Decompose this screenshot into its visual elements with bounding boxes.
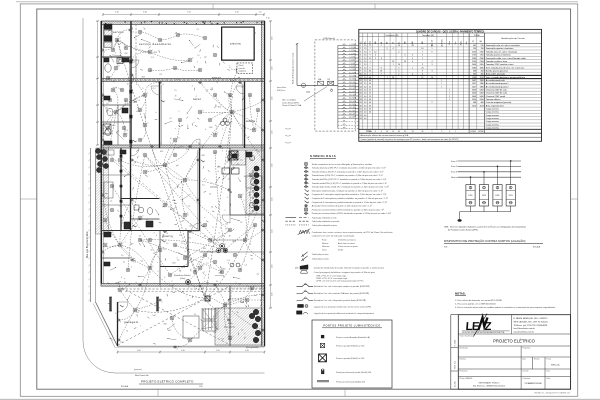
- svg-text:7: 7: [370, 48, 371, 50]
- svg-text:24: 24: [421, 67, 423, 69]
- svg-text:11: 11: [167, 233, 169, 235]
- svg-text:c: c: [160, 262, 161, 264]
- street corner curb arc: [83, 341, 115, 373]
- svg-text:10: 10: [246, 190, 248, 192]
- svg-text:17- 1,5(W): 17- 1,5(W): [349, 95, 357, 97]
- svg-text:18- 2,5(W): 18- 2,5(W): [349, 98, 357, 100]
- svg-text:Ligação de sua proteção reside: Ligação de sua proteção residencial a em…: [314, 305, 372, 308]
- svg-text:lenz@lenzeletrica.com.br: lenz@lenzeletrica.com.br: [514, 327, 536, 330]
- svg-text:10: 10: [398, 64, 400, 66]
- svg-text:Ponto para chuveiro elétrico 2: Ponto para chuveiro elétrico 220V instal…: [312, 208, 384, 211]
- lower middle lights: [138, 238, 142, 242]
- svg-text:Carga reserva: Carga reserva: [486, 108, 500, 111]
- svg-text:2,5: 2,5: [364, 64, 367, 66]
- svg-text:2,5: 2,5: [364, 51, 367, 53]
- quadro de cargas table frame: [359, 29, 542, 141]
- svg-text:5: 5: [398, 67, 399, 69]
- svg-text:1: 1: [449, 93, 450, 95]
- svg-text:Instalação (W): Instalação (W): [386, 34, 399, 37]
- svg-text:Ø20: Ø20: [209, 127, 212, 129]
- legend row chu: [305, 208, 308, 211]
- svg-text:3: 3: [211, 182, 212, 184]
- svg-text:a: a: [202, 110, 203, 112]
- svg-text:9: 9: [432, 51, 433, 53]
- svg-text:b: b: [252, 156, 253, 158]
- svg-text:Acionador forma: botoeira de p: Acionador forma: botoeira de pulso a 1,1…: [312, 205, 372, 208]
- svg-text:a: a: [232, 336, 233, 338]
- extra fixtures kitchen: [249, 155, 254, 160]
- svg-text:FL. 01/01: FL. 01/01: [455, 340, 457, 347]
- svg-text:25: 25: [369, 96, 371, 98]
- svg-text:(5kA): (5kA): [306, 91, 310, 94]
- svg-text:Tomada alta/cota (2,0P) 2P+T,: Tomada alta/cota (2,0P) 2P+T, instalada …: [312, 167, 386, 170]
- svg-text:Tomada sala, int. sala e circu: Tomada sala, int. sala e circulação: [486, 50, 518, 53]
- svg-text:CPTE = 50 x 50 x 12cm com ta: CPTE = 50 x 50 x 12cm com tampa parafusa…: [316, 280, 364, 283]
- svg-text:2,5: 2,5: [162, 84, 164, 86]
- svg-text:2,5: 2,5: [134, 262, 136, 264]
- svg-text:b: b: [156, 112, 157, 114]
- svg-text:Carga reserva: Carga reserva: [486, 123, 500, 126]
- svg-text:4: 4: [227, 197, 228, 199]
- svg-text:16: 16: [230, 192, 232, 194]
- svg-text:2,5: 2,5: [364, 58, 367, 60]
- svg-text:1,5: 1,5: [166, 243, 168, 245]
- svg-text:5: 5: [119, 285, 120, 287]
- svg-text:2: 2: [178, 111, 179, 113]
- wire DPS3 to earth bus: [497, 206, 499, 212]
- svg-text:Ponto para chuveiro elétrico (: Ponto para chuveiro elétrico (220V) loca…: [312, 212, 391, 215]
- dimension chain right: [270, 21, 272, 308]
- wire tap DPS3: [497, 166, 499, 184]
- QGD dashed enclosure: [315, 40, 355, 131]
- svg-text:7: 7: [370, 64, 371, 66]
- svg-text:Ø20: Ø20: [164, 324, 167, 326]
- svg-text:(Pool): (Pool): [239, 65, 244, 67]
- svg-text:Vermelho ou branco: Vermelho ou branco: [338, 240, 357, 242]
- suite closet dark boxes: [124, 222, 130, 229]
- ceiling light points: [115, 38, 119, 42]
- svg-text:8: 8: [381, 131, 382, 133]
- svg-text:Iluminação sala, int. sala e c: Iluminação sala, int. sala e circulação: [486, 44, 521, 47]
- svg-text:14: 14: [392, 61, 394, 63]
- svg-text:9: 9: [412, 61, 413, 63]
- svg-text:3: 3: [432, 70, 433, 72]
- washing machine: [117, 58, 123, 64]
- svg-text:Rede de Energia da concess. lo: Rede de Energia da concess. local: [293, 53, 295, 84]
- svg-text:2: 2: [140, 325, 141, 327]
- svg-text:9: 9: [387, 48, 388, 50]
- svg-text:2,5: 2,5: [177, 259, 179, 261]
- svg-text:4,1: 4,1: [239, 283, 241, 285]
- svg-text:16: 16: [126, 330, 128, 332]
- svg-text:Bomba piscina (piscina): Bomba piscina (piscina): [486, 70, 508, 72]
- svg-text:3,45: 3,45: [115, 12, 119, 14]
- svg-text:6: 6: [360, 61, 361, 63]
- svg-text:10: 10: [159, 143, 161, 145]
- svg-text:2,5: 2,5: [364, 70, 367, 72]
- svg-text:10: 10: [127, 84, 129, 86]
- svg-text:20- 2,5(W): 20- 2,5(W): [349, 104, 357, 106]
- svg-text:4,0: 4,0: [364, 90, 367, 92]
- svg-text:2: 2: [398, 51, 399, 53]
- svg-text:44: 44: [369, 99, 371, 101]
- garage left wall: [117, 302, 119, 346]
- svg-text:1: 1: [441, 80, 442, 82]
- svg-text:3: 3: [243, 125, 244, 127]
- svg-text:4,0: 4,0: [364, 105, 367, 107]
- svg-text:4,0: 4,0: [364, 102, 367, 104]
- wall garage top: [101, 284, 265, 287]
- svg-text:Fase:: Fase:: [322, 240, 327, 242]
- svg-text:ESCALA: ESCALA: [121, 385, 129, 388]
- pontos row 2: [320, 343, 324, 347]
- svg-text:Ponto no parede (40x40) Luz 20: Ponto no parede (40x40) Luz 200: [336, 357, 364, 360]
- casa de maquinas box: [237, 63, 253, 74]
- svg-text:5: 5: [412, 58, 413, 60]
- svg-text:(Obra): (Obra): [180, 278, 186, 280]
- svg-text:22- 2,5(W): 22- 2,5(W): [349, 110, 357, 112]
- svg-text:a: a: [204, 277, 205, 279]
- hall inner walls: [187, 231, 189, 267]
- svg-text:20: 20: [360, 105, 362, 107]
- svg-text:garagem: garagem: [124, 320, 139, 324]
- logo cell divider: [510, 315, 512, 334]
- svg-text:3: 3: [441, 131, 442, 133]
- svg-text:368: 368: [473, 70, 476, 72]
- legend tubulacao slash row: [300, 251, 308, 258]
- svg-text:b: b: [244, 333, 245, 335]
- svg-text:11: 11: [231, 162, 233, 164]
- svg-text:Identificação do Circuito: Identificação do Circuito: [501, 37, 525, 40]
- svg-text:15: 15: [399, 42, 401, 44]
- svg-text:24: 24: [412, 45, 414, 47]
- svg-text:2,85: 2,85: [272, 131, 274, 135]
- svg-text:9: 9: [360, 70, 361, 72]
- svg-text:5500: 5500: [480, 99, 484, 101]
- svg-text:VERSÃO 01 - ESCALA DE PLOTAG: VERSÃO 01 - ESCALA DE PLOTAGEM 1/50: [534, 392, 570, 395]
- building left wall: [100, 21, 102, 284]
- garden plants dark blobs: [95, 148, 100, 153]
- svg-text:5: 5: [230, 322, 231, 324]
- legend row tom_b: [305, 174, 307, 176]
- svg-text:Chuv.: Chuv.: [449, 41, 451, 45]
- wire tap DPS2: [483, 172, 485, 185]
- svg-text:10: 10: [226, 162, 228, 164]
- svg-text:2: 2: [228, 188, 229, 190]
- svg-text:14: 14: [404, 61, 406, 63]
- svg-text:2,5: 2,5: [364, 83, 367, 85]
- svg-text:1: 1: [455, 131, 456, 133]
- svg-text:40: 40: [369, 109, 371, 111]
- svg-text:10: 10: [244, 176, 246, 178]
- svg-text:5400: 5400: [472, 93, 476, 95]
- spare branches: [338, 121, 359, 123]
- svg-text:2100: 2100: [480, 61, 484, 63]
- svg-text:1580: 1580: [472, 67, 476, 69]
- svg-text:19: 19: [360, 102, 362, 104]
- svg-text:Carga reserva: Carga reserva: [486, 117, 500, 120]
- svg-text:34: 34: [412, 131, 414, 133]
- shower box X: [103, 124, 111, 134]
- svg-text:4: 4: [360, 55, 361, 57]
- legend tubulacao row: [286, 220, 297, 222]
- svg-text:Ponto para iluminação (bulbo): Ponto para iluminação (bulbo) 100: [336, 380, 365, 383]
- svg-text:9: 9: [370, 55, 371, 57]
- gate posts garage: [110, 297, 112, 311]
- svg-text:Tomada quartos e banheiro: Tomada quartos e banheiro: [486, 54, 512, 57]
- svg-text:5500: 5500: [472, 99, 476, 101]
- svg-text:2400: 2400: [472, 64, 476, 66]
- svg-text:Rua Dona Ida: Rua Dona Ida: [135, 375, 149, 377]
- legend eletroduto condutores block: [299, 230, 310, 234]
- svg-text:b: b: [192, 58, 193, 60]
- svg-text:2,85: 2,85: [272, 230, 274, 234]
- svg-text:Chuveiro 220V de suíte: Chuveiro 220V de suíte: [486, 92, 508, 95]
- legend row tom_m: [305, 170, 307, 172]
- svg-text:7- 1,5(W): 7- 1,5(W): [349, 63, 356, 65]
- svg-text:7: 7: [234, 83, 235, 85]
- svg-text:13: 13: [360, 83, 362, 85]
- svg-text:3: 3: [139, 239, 140, 241]
- svg-text:3: 3: [164, 277, 165, 279]
- svg-text:9: 9: [370, 67, 371, 69]
- svg-text:2: 2: [375, 58, 376, 60]
- DR device: [328, 81, 334, 85]
- svg-text:#1,5: #1,5: [151, 57, 154, 59]
- svg-text:27: 27: [225, 229, 227, 231]
- svg-text:b: b: [224, 236, 225, 238]
- legend tubulacao row: [286, 217, 297, 219]
- svg-text:3: 3: [244, 261, 245, 263]
- top band speckles: [141, 22, 142, 23]
- dimension chain left: [97, 21, 99, 145]
- svg-text:462: 462: [473, 45, 476, 47]
- svg-text:14: 14: [360, 86, 362, 88]
- svg-text:21- 1,5(W): 21- 1,5(W): [349, 107, 357, 109]
- qgd box in plan: [205, 296, 210, 301]
- svg-text:1,5: 1,5: [209, 194, 211, 196]
- spare rows: [359, 122, 542, 124]
- legend row lamp: [304, 162, 308, 166]
- building top wall band: [101, 21, 265, 25]
- svg-text:a: a: [157, 262, 158, 264]
- svg-text:S/M: S/M: [444, 246, 448, 248]
- svg-text:3: 3: [120, 322, 121, 324]
- svg-text:190: 190: [481, 48, 484, 50]
- svg-text:2: 2: [131, 266, 132, 268]
- svg-text:9: 9: [422, 70, 423, 72]
- svg-text:a: a: [202, 282, 203, 284]
- svg-text:c: c: [186, 296, 187, 298]
- svg-text:1013: 1013: [472, 105, 476, 107]
- svg-text:40: 40: [369, 112, 371, 114]
- svg-text:a: a: [152, 315, 153, 317]
- svg-text:4,0: 4,0: [364, 118, 367, 120]
- svg-text:b: b: [218, 171, 219, 173]
- legend dps row: [298, 304, 304, 307]
- svg-text:1: 1: [393, 64, 394, 66]
- svg-text:Ø20: Ø20: [112, 125, 115, 127]
- svg-text:hall: hall: [240, 300, 244, 304]
- svg-text:Conjunto de 1 interruptor simp: Conjunto de 1 interruptor simples/parale…: [312, 193, 387, 196]
- svg-text:3: 3: [160, 265, 161, 267]
- legend row tom_d: [305, 186, 307, 188]
- mid lower wall: [101, 257, 131, 259]
- svg-text:b: b: [255, 32, 256, 34]
- svg-text:Contra Surtos (DPS): Contra Surtos (DPS): [282, 101, 299, 104]
- svg-text:1,5: 1,5: [117, 289, 119, 291]
- svg-text:RESPONSÁVEL TÉCNICO: RESPONSÁVEL TÉCNICO: [479, 381, 500, 384]
- svg-text:máquinas: máquinas: [239, 71, 247, 73]
- svg-text:c: c: [228, 131, 229, 133]
- svg-text:b: b: [228, 263, 229, 265]
- svg-text:b: b: [239, 155, 240, 157]
- svg-text:3: 3: [265, 202, 266, 204]
- svg-text:25: 25: [393, 42, 395, 44]
- svg-text:Circ: Circ: [360, 41, 362, 44]
- dashed area divider: [135, 25, 137, 79]
- svg-text:5400: 5400: [472, 96, 476, 98]
- svg-text:3: 3: [360, 51, 361, 53]
- svg-text:2580: 2580: [480, 58, 484, 60]
- svg-text:DISPOSITIVO DE PROTEÇÃO CON: DISPOSITIVO DE PROTEÇÃO CONTRA SURTOS (L…: [444, 238, 526, 243]
- door jambs x131: [130, 60, 132, 63]
- total row: [359, 128, 542, 130]
- svg-text:25: 25: [369, 86, 371, 88]
- kitchen X box: [229, 151, 238, 160]
- svg-text:1: 1: [200, 233, 201, 235]
- row profissional: [520, 369, 522, 377]
- svg-text:b: b: [185, 259, 186, 261]
- svg-text:16: 16: [175, 95, 177, 97]
- svg-text:19- 1,5(W): 19- 1,5(W): [349, 101, 357, 103]
- svg-text:2,5: 2,5: [133, 62, 135, 64]
- svg-text:5: 5: [104, 197, 105, 199]
- svg-text:#1,5: #1,5: [152, 88, 155, 90]
- legend eletroduto arc row: [297, 284, 314, 286]
- svg-text:6,00: 6,00: [137, 350, 141, 352]
- pontos row 1: [321, 335, 324, 338]
- svg-text:Alimentação: trifásico de co: Alimentação: trifásico de corrente nomin…: [361, 134, 410, 137]
- svg-text:1: 1: [123, 262, 124, 264]
- svg-text:Fase: Fase: [370, 41, 372, 45]
- legend tubulacao slash row: [300, 255, 308, 262]
- svg-text:1380: 1380: [480, 86, 484, 88]
- svg-text:3: 3: [142, 95, 143, 97]
- svg-text:3: 3: [222, 150, 223, 152]
- svg-text:d: d: [119, 38, 120, 40]
- svg-text:Ø20: Ø20: [160, 151, 163, 153]
- svg-text:2,5: 2,5: [169, 118, 171, 120]
- svg-text:a: a: [204, 281, 205, 283]
- svg-text:13- 1,5(W): 13- 1,5(W): [349, 82, 357, 84]
- svg-text:24: 24: [360, 118, 362, 120]
- switch marks: [133, 99, 136, 102]
- svg-text:5: 5: [197, 62, 198, 64]
- wall band y145: [101, 145, 265, 148]
- svg-text:5400: 5400: [472, 90, 476, 92]
- svg-text:Neutro:: Neutro:: [322, 242, 329, 245]
- svg-text:23- 1,5(W): 23- 1,5(W): [349, 114, 357, 116]
- svg-text:4: 4: [196, 96, 197, 98]
- svg-text:4,0: 4,0: [364, 96, 367, 98]
- svg-text:d: d: [118, 66, 119, 68]
- svg-text:#1,5: #1,5: [125, 130, 128, 132]
- svg-text:Escala: Escala: [547, 359, 552, 361]
- kitchen divider: [229, 148, 231, 215]
- svg-text:Rua Luís Bezerra de Melo: Rua Luís Bezerra de Melo: [86, 231, 89, 258]
- svg-text:2,5: 2,5: [189, 238, 191, 240]
- triple light cluster: [230, 151, 234, 155]
- svg-text:129445: 129445: [470, 131, 476, 133]
- svg-text:Verde: Verde: [338, 250, 344, 252]
- garage diagonal dashes: [118, 286, 230, 345]
- svg-text:24- 2,5(W): 24- 2,5(W): [349, 117, 357, 119]
- svg-text:4: 4: [449, 131, 450, 133]
- svg-text:23: 23: [360, 115, 362, 117]
- piscina redraw clean: [222, 27, 254, 60]
- svg-text:10: 10: [187, 300, 189, 302]
- legend eletroduto arc row: [297, 291, 314, 293]
- svg-text:2,5: 2,5: [364, 80, 367, 82]
- svg-text:8- 2,5(W): 8- 2,5(W): [349, 66, 356, 68]
- svg-text:7: 7: [104, 254, 105, 256]
- svg-text:7: 7: [360, 64, 361, 66]
- svg-text:4: 4: [149, 266, 150, 268]
- svg-text:3: 3: [422, 64, 423, 66]
- lot boundary bottom: [118, 345, 265, 347]
- svg-text:16: 16: [151, 250, 153, 252]
- svg-text:2,5: 2,5: [364, 55, 367, 57]
- svg-text:460: 460: [481, 102, 484, 104]
- svg-text:1: 1: [231, 151, 232, 153]
- svg-text:4: 4: [432, 61, 433, 63]
- svg-text:(Residência Padrão): (Residência Padrão): [174, 274, 191, 277]
- svg-text:10: 10: [256, 150, 258, 152]
- svg-text:Ponto no parede (30x30) Luz 10: Ponto no parede (30x30) Luz 100: [336, 345, 364, 348]
- svg-text:1-5: 1-5: [186, 149, 189, 151]
- svg-text:5: 5: [360, 58, 361, 60]
- svg-text:25: 25: [369, 90, 371, 92]
- wire tap DPS4: [510, 161, 512, 185]
- svg-text:6- 2,5(W): 6- 2,5(W): [349, 60, 356, 62]
- svg-text:Conjunto de 3 interruptores pa: Conjunto de 3 interruptores paralelos/to…: [312, 201, 387, 204]
- svg-text:1: 1: [441, 86, 442, 88]
- svg-text:12- 2,5(W): 12- 2,5(W): [349, 79, 357, 81]
- legend row tom_a: [305, 167, 307, 169]
- svg-text:Eng. Eletricista - CREA/MG 000: Eng. Eletricista - CREA/MG 000.000.000-0: [473, 384, 505, 387]
- svg-text:40: 40: [369, 80, 371, 82]
- upper curves: [140, 32, 160, 40]
- svg-text:3: 3: [265, 262, 266, 264]
- svg-text:1013: 1013: [480, 105, 484, 107]
- svg-text:1-5: 1-5: [138, 100, 141, 102]
- svg-text:34: 34: [398, 131, 400, 133]
- svg-text:Ponto no centro/lâmpada (Embut: Ponto no centro/lâmpada (Embutido LA): [336, 336, 370, 339]
- triple lamp cluster: [220, 244, 225, 249]
- legend row sw3: [305, 196, 309, 200]
- svg-text:2,5: 2,5: [124, 282, 126, 284]
- svg-text:a: a: [194, 122, 195, 124]
- svg-text:b: b: [122, 158, 123, 160]
- svg-text:2,5: 2,5: [174, 90, 176, 92]
- svg-text:10: 10: [202, 265, 204, 267]
- svg-text:b: b: [205, 129, 206, 131]
- svg-text:PROJETO ELÉTRICO COMPLETO: PROJETO ELÉTRICO COMPLETO: [141, 379, 194, 384]
- svg-text:14: 14: [392, 131, 394, 133]
- table emphasis band: [359, 74, 542, 76]
- svg-text:www.lenzeletrica.com.br: www.lenzeletrica.com.br: [514, 330, 535, 333]
